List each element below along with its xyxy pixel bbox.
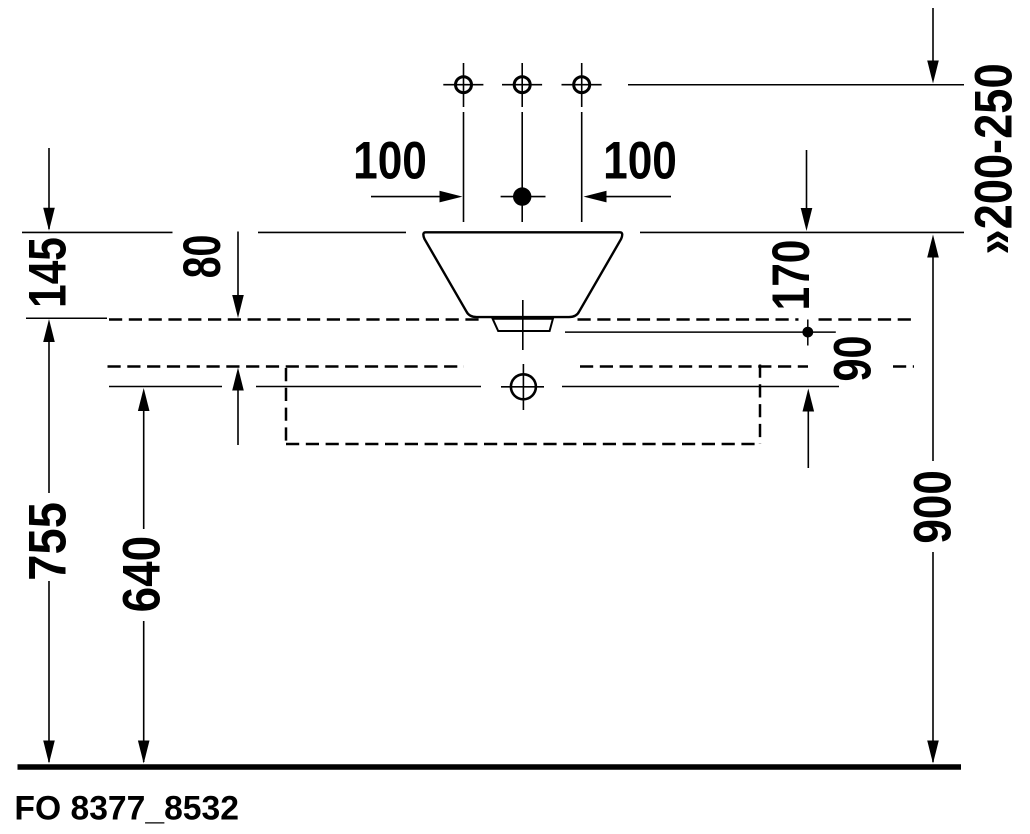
- basin outline: [423, 232, 622, 317]
- dim 900 lower line: [932, 552, 934, 762]
- center dot horizontal line: [501, 196, 546, 198]
- hole drop line 1: [463, 112, 465, 222]
- line to reference dot: [565, 331, 836, 333]
- centerline above drain circle: [522, 300, 524, 350]
- hole drop line 2 (center): [521, 112, 523, 222]
- dashed line lower: [108, 365, 915, 368]
- dashed cabinet outline right side: [759, 365, 762, 445]
- drain circle crosshair: [501, 364, 544, 410]
- svg-text:100: 100: [353, 132, 427, 191]
- dim 90 lower shaft with up arrow: [803, 389, 815, 412]
- faucet hole crosshair 1: [443, 63, 483, 107]
- countertop line segment left: [22, 231, 173, 233]
- svg-text:170: 170: [763, 240, 822, 311]
- dim 170 shaft with down arrow: [806, 150, 808, 213]
- faucet hole crosshair 2: [502, 63, 542, 107]
- svg-text:90: 90: [824, 336, 883, 382]
- dashed cabinet outline bottom: [286, 443, 760, 446]
- countertop line segment mid: [258, 231, 406, 233]
- svg-text:FO 8377_8532: FO 8377_8532: [14, 789, 239, 827]
- dim 755 lower line: [48, 581, 50, 762]
- reference dot: [802, 327, 813, 338]
- dashed cabinet outline left side: [285, 368, 288, 444]
- dim 80 upper shaft with down arrow: [237, 232, 239, 301]
- drain trapezoid: [493, 319, 553, 331]
- dim 640 lower line: [143, 621, 145, 762]
- svg-text:640: 640: [111, 536, 171, 613]
- faucet level line (top right): [628, 84, 964, 86]
- dim 80 lower shaft with up arrow: [232, 368, 244, 391]
- dim 145/755 line upper part: [48, 148, 50, 229]
- faucet hole crosshair 3: [562, 63, 602, 107]
- dim 900 upper arrow: [927, 235, 939, 258]
- dim 100 left arrow line: [371, 196, 440, 198]
- dim 100 right arrow line: [607, 196, 672, 198]
- dim 200-250 upper shaft with down arrow: [932, 8, 934, 65]
- dim 755 upper arrow: [43, 319, 55, 342]
- dashed line upper (countertop surface level): [109, 318, 914, 321]
- floor line: [18, 764, 962, 770]
- center reference dot: [513, 187, 531, 205]
- extension line left at basin bottom level: [26, 317, 107, 319]
- svg-text:755: 755: [18, 502, 77, 581]
- svg-text:100: 100: [603, 132, 677, 191]
- dim 640 upper arrow: [138, 388, 150, 411]
- countertop line segment right: [640, 231, 964, 233]
- svg-text:900: 900: [904, 470, 963, 543]
- short vertical through dot: [807, 320, 809, 346]
- level line 640: [109, 386, 839, 388]
- svg-text:145: 145: [19, 237, 78, 308]
- svg-text:»200-250: »200-250: [964, 63, 1023, 254]
- hole drop line 3: [581, 112, 583, 222]
- svg-text:80: 80: [172, 235, 231, 279]
